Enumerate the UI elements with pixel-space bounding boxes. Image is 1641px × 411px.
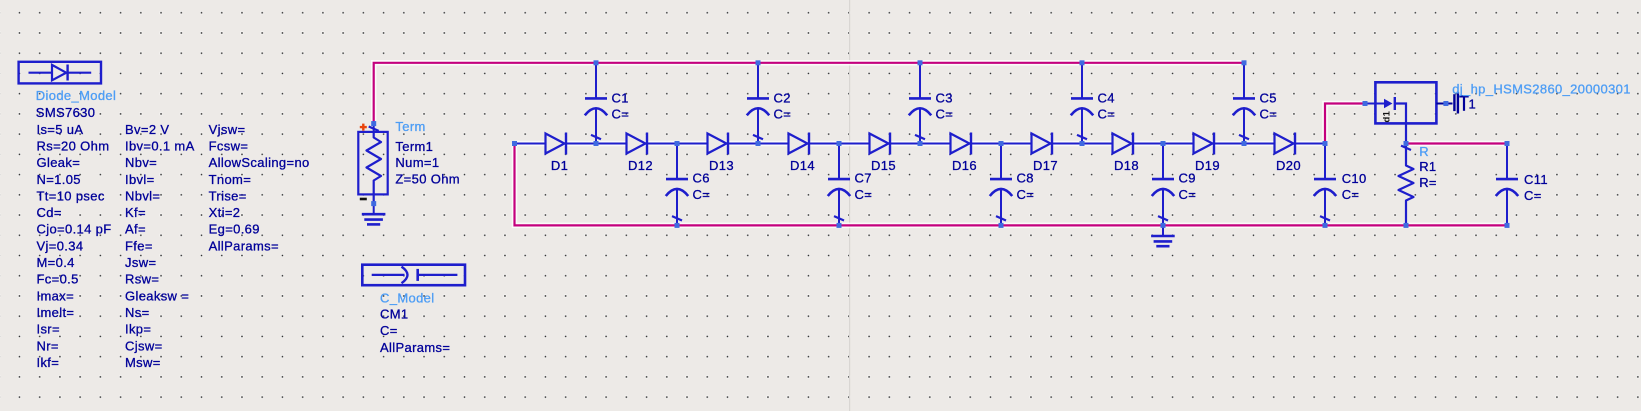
svg-text:C10: C10 (1342, 171, 1367, 186)
svg-text:Ikf=: Ikf= (37, 355, 60, 370)
svg-text:dj_hp_HSMS2860_20000301: dj_hp_HSMS2860_20000301 (1452, 82, 1631, 97)
svg-text:Vjsw=: Vjsw= (209, 122, 246, 137)
svg-text:Term: Term (395, 119, 425, 134)
svg-text:C=: C= (693, 187, 711, 202)
svg-text:Ikp=: Ikp= (125, 322, 151, 337)
svg-text:Num=1: Num=1 (395, 155, 439, 170)
svg-text:D12: D12 (628, 158, 653, 173)
svg-text:R=: R= (1419, 175, 1437, 190)
svg-text:C=: C= (612, 107, 630, 122)
svg-text:Gleak=: Gleak= (37, 155, 81, 170)
svg-text:C4: C4 (1098, 91, 1115, 106)
svg-text:Diode_Model: Diode_Model (36, 88, 116, 103)
svg-text:D17: D17 (1033, 158, 1058, 173)
svg-text:Gleaksw =: Gleaksw = (125, 288, 189, 303)
svg-text:AllParams=: AllParams= (380, 340, 450, 355)
svg-text:R: R (1419, 144, 1429, 159)
svg-text:Rsw=: Rsw= (125, 272, 159, 287)
svg-text:1: 1 (1469, 97, 1477, 112)
svg-text:Vj=0.34: Vj=0.34 (37, 238, 84, 253)
svg-text:D18: D18 (1114, 158, 1139, 173)
svg-text:Bv=2 V: Bv=2 V (125, 122, 169, 137)
svg-text:Fc=0.5: Fc=0.5 (37, 272, 79, 287)
svg-text:C1: C1 (612, 91, 629, 106)
svg-text:Ns=: Ns= (125, 305, 150, 320)
svg-text:d1: d1 (1382, 110, 1393, 122)
svg-text:Ibvl=: Ibvl= (125, 172, 155, 187)
svg-text:C9: C9 (1179, 171, 1196, 186)
svg-text:Cjsw=: Cjsw= (125, 338, 163, 353)
svg-text:AllowScaling=no: AllowScaling=no (209, 155, 310, 170)
svg-text:Is=5 uA: Is=5 uA (37, 122, 84, 137)
svg-text:Msw=: Msw= (125, 355, 161, 370)
svg-text:C=: C= (774, 107, 792, 122)
svg-text:Isr=: Isr= (37, 322, 60, 337)
svg-text:Ibv=0.1 mA: Ibv=0.1 mA (125, 138, 195, 153)
svg-text:Cjo=0.14 pF: Cjo=0.14 pF (37, 222, 112, 237)
svg-text:Fcsw=: Fcsw= (209, 138, 249, 153)
svg-text:Term1: Term1 (395, 139, 433, 154)
svg-text:C=: C= (1017, 187, 1035, 202)
svg-text:Imelt=: Imelt= (37, 305, 75, 320)
svg-text:Jsw=: Jsw= (125, 255, 156, 270)
svg-text:D16: D16 (952, 158, 977, 173)
svg-text:C6: C6 (693, 171, 710, 186)
svg-text:CM1: CM1 (380, 307, 409, 322)
svg-text:Xti=2: Xti=2 (209, 205, 241, 220)
svg-text:C=: C= (1179, 187, 1197, 202)
svg-text:Nbv=: Nbv= (125, 155, 157, 170)
svg-text:C_Model: C_Model (380, 291, 434, 306)
svg-text:C=: C= (1260, 107, 1278, 122)
svg-text:C2: C2 (774, 91, 791, 106)
svg-text:AllParams=: AllParams= (209, 238, 279, 253)
svg-text:Nbvl=: Nbvl= (125, 188, 160, 203)
svg-text:D1: D1 (551, 158, 568, 173)
svg-text:N=1.05: N=1.05 (37, 172, 81, 187)
svg-text:C=: C= (855, 187, 873, 202)
svg-text:Imax=: Imax= (37, 288, 75, 303)
svg-text:C=: C= (1342, 187, 1360, 202)
svg-text:C=: C= (936, 107, 954, 122)
svg-text:Tnom=: Tnom= (209, 172, 252, 187)
svg-text:C=: C= (1524, 188, 1542, 203)
svg-text:R1: R1 (1419, 159, 1436, 174)
svg-text:Z=50 Ohm: Z=50 Ohm (395, 171, 460, 186)
svg-text:C5: C5 (1260, 91, 1277, 106)
svg-text:Rs=20 Ohm: Rs=20 Ohm (37, 138, 110, 153)
svg-text:C8: C8 (1017, 171, 1034, 186)
svg-text:Af=: Af= (125, 222, 146, 237)
svg-text:C7: C7 (855, 171, 872, 186)
svg-text:SMS7630: SMS7630 (36, 105, 96, 120)
svg-text:Eg=0.69: Eg=0.69 (209, 222, 260, 237)
svg-text:D13: D13 (709, 158, 734, 173)
svg-text:C3: C3 (936, 91, 953, 106)
svg-text:Tt=10 psec: Tt=10 psec (37, 188, 105, 203)
svg-text:Nr=: Nr= (37, 338, 59, 353)
svg-text:D15: D15 (871, 158, 896, 173)
svg-text:Ffe=: Ffe= (125, 238, 153, 253)
svg-text:D14: D14 (790, 158, 815, 173)
svg-text:D20: D20 (1276, 158, 1301, 173)
svg-text:C=: C= (380, 323, 398, 338)
svg-text:C11: C11 (1524, 172, 1548, 187)
svg-text:C=: C= (1098, 107, 1116, 122)
svg-text:Cd=: Cd= (37, 205, 62, 220)
svg-text:Trise=: Trise= (209, 188, 247, 203)
svg-text:D19: D19 (1195, 158, 1220, 173)
svg-text:Kf=: Kf= (125, 205, 146, 220)
svg-text:M=0.4: M=0.4 (37, 255, 75, 270)
